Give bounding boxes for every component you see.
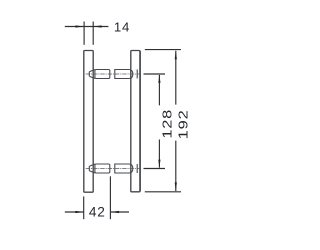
svg-text:192: 192 — [177, 109, 191, 139]
svg-text:14: 14 — [114, 20, 130, 35]
svg-text:42: 42 — [89, 205, 106, 220]
svg-text:128: 128 — [161, 109, 175, 139]
